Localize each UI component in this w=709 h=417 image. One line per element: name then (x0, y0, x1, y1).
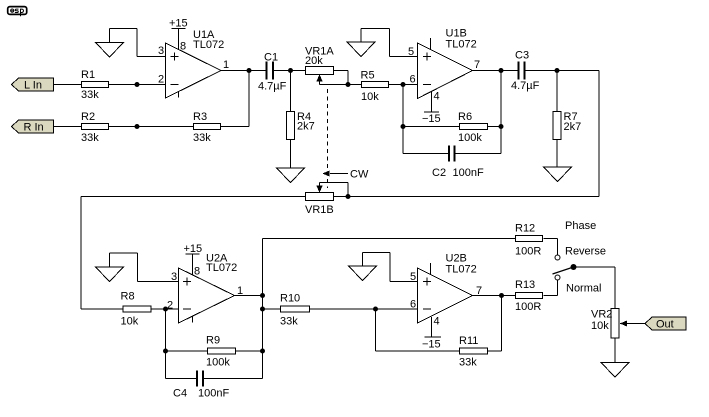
svg-text:2: 2 (158, 74, 164, 86)
svg-text:4.7µF: 4.7µF (258, 81, 287, 93)
svg-text:100R: 100R (515, 246, 541, 258)
svg-text:1: 1 (223, 59, 229, 71)
svg-text:R8: R8 (121, 291, 135, 303)
svg-text:100nF: 100nF (198, 388, 229, 400)
svg-text:4.7µF: 4.7µF (511, 80, 540, 92)
svg-text:33k: 33k (81, 132, 99, 144)
svg-text:C3: C3 (515, 50, 529, 62)
svg-text:20k: 20k (305, 55, 323, 67)
svg-text:Normal: Normal (566, 283, 601, 295)
svg-text:C2: C2 (432, 167, 446, 179)
svg-text:Out: Out (656, 319, 674, 331)
svg-text:R2: R2 (81, 111, 95, 123)
svg-text:100k: 100k (206, 357, 230, 369)
svg-text:8: 8 (194, 266, 200, 278)
svg-text:10k: 10k (591, 320, 609, 332)
svg-text:R10: R10 (280, 293, 300, 305)
svg-text:R3: R3 (193, 111, 207, 123)
svg-text:1: 1 (237, 285, 243, 297)
svg-text:4: 4 (434, 316, 440, 328)
svg-text:+15: +15 (169, 18, 188, 30)
svg-text:100k: 100k (458, 132, 482, 144)
svg-text:VR2: VR2 (591, 309, 612, 321)
svg-text:33k: 33k (193, 132, 211, 144)
svg-text:100R: 100R (515, 301, 541, 313)
svg-text:TL072: TL072 (206, 262, 237, 274)
svg-text:8: 8 (180, 41, 186, 53)
svg-text:100nF: 100nF (453, 167, 484, 179)
svg-text:TL072: TL072 (193, 39, 224, 51)
svg-text:R11: R11 (459, 335, 478, 347)
svg-text:VR1B: VR1B (305, 204, 334, 216)
svg-text:+15: +15 (184, 243, 203, 255)
svg-text:TL072: TL072 (446, 264, 477, 276)
svg-text:−15: −15 (422, 113, 441, 125)
svg-text:R In: R In (24, 122, 44, 134)
svg-text:2: 2 (167, 300, 173, 312)
svg-text:R1: R1 (81, 69, 95, 81)
svg-text:R5: R5 (361, 70, 375, 82)
svg-text:3: 3 (158, 45, 164, 57)
svg-text:−15: −15 (422, 339, 441, 351)
svg-text:2k7: 2k7 (564, 121, 582, 133)
svg-text:C4: C4 (173, 388, 187, 400)
svg-text:6: 6 (410, 299, 416, 311)
svg-text:33k: 33k (81, 89, 99, 101)
svg-text:33k: 33k (459, 357, 477, 369)
svg-text:2k7: 2k7 (297, 121, 315, 133)
svg-text:C1: C1 (264, 52, 278, 64)
svg-text:33k: 33k (280, 316, 298, 328)
svg-text:R6: R6 (458, 111, 472, 123)
svg-text:Reverse: Reverse (565, 246, 606, 258)
svg-text:10k: 10k (121, 316, 139, 328)
svg-text:7: 7 (474, 59, 480, 71)
svg-text:7: 7 (476, 285, 482, 297)
svg-text:Phase: Phase (565, 220, 596, 232)
svg-text:5: 5 (408, 46, 414, 58)
svg-text:5: 5 (410, 271, 416, 283)
svg-text:3: 3 (171, 271, 177, 283)
svg-text:6: 6 (410, 74, 416, 86)
svg-text:10k: 10k (361, 91, 379, 103)
svg-text:CW: CW (350, 169, 369, 181)
svg-text:R13: R13 (515, 279, 535, 291)
svg-text:R9: R9 (206, 335, 220, 347)
svg-text:4: 4 (434, 91, 440, 103)
svg-text:L In: L In (24, 80, 42, 92)
svg-text:TL072: TL072 (446, 39, 477, 51)
svg-text:R12: R12 (515, 223, 535, 235)
